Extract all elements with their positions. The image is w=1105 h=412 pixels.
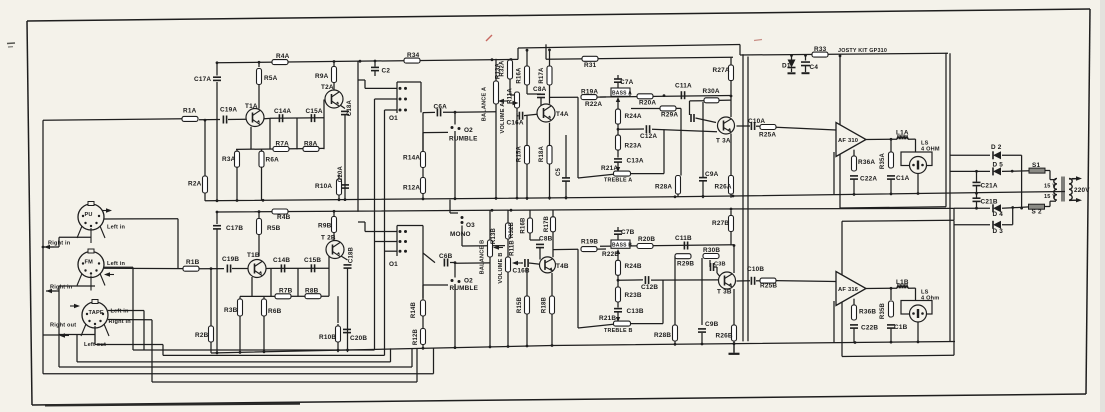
svg-text:C3B: C3B xyxy=(714,262,726,268)
svg-text:BALANCE B: BALANCE B xyxy=(480,240,486,275)
svg-text:C13A: C13A xyxy=(627,158,644,165)
svg-text:R30A: R30A xyxy=(703,88,720,95)
svg-text:R14A: R14A xyxy=(403,155,420,162)
svg-text:R25A: R25A xyxy=(759,132,776,139)
svg-text:C18B: C18B xyxy=(349,246,355,263)
svg-text:R22B: R22B xyxy=(602,251,619,258)
svg-text:BASS B: BASS B xyxy=(612,242,632,248)
svg-text:AF 310: AF 310 xyxy=(838,138,858,144)
svg-text:O3: O3 xyxy=(466,222,475,229)
svg-text:C13B: C13B xyxy=(627,308,644,315)
svg-text:T 3A: T 3A xyxy=(716,138,731,145)
svg-text:L1A: L1A xyxy=(896,130,909,137)
svg-text:D 5: D 5 xyxy=(993,162,1004,169)
svg-text:D 3: D 3 xyxy=(993,228,1004,235)
svg-text:C12A: C12A xyxy=(640,133,657,140)
svg-text:R23B: R23B xyxy=(625,292,642,299)
svg-text:R32A: R32A xyxy=(500,60,506,77)
svg-text:R3A: R3A xyxy=(222,156,236,163)
svg-text:TREBLE B: TREBLE B xyxy=(604,328,633,334)
svg-text:BASS A: BASS A xyxy=(612,90,632,96)
svg-text:C14B: C14B xyxy=(273,257,290,264)
svg-text:R15A: R15A xyxy=(517,145,523,162)
svg-text:Left in: Left in xyxy=(107,225,126,231)
svg-text:R30B: R30B xyxy=(703,247,720,254)
svg-text:220V: 220V xyxy=(1074,187,1090,194)
svg-text:R18A: R18A xyxy=(539,145,545,162)
svg-text:R24B: R24B xyxy=(625,263,642,270)
svg-text:R13B: R13B xyxy=(491,227,497,244)
svg-text:R29A: R29A xyxy=(661,112,678,119)
svg-text:C7A: C7A xyxy=(620,79,634,86)
svg-text:R8B: R8B xyxy=(305,288,319,295)
svg-text:R19A: R19A xyxy=(581,89,598,96)
svg-text:R12A: R12A xyxy=(403,185,420,192)
svg-text:D 2: D 2 xyxy=(991,144,1002,151)
svg-text:15 V: 15 V xyxy=(1044,194,1056,200)
svg-text:Left in: Left in xyxy=(111,309,130,315)
svg-text:L1B: L1B xyxy=(896,279,909,286)
svg-text:BALANCE A: BALANCE A xyxy=(482,87,488,122)
svg-text:C17A: C17A xyxy=(194,76,211,83)
svg-text:C8A: C8A xyxy=(533,86,547,93)
svg-text:4 OHM: 4 OHM xyxy=(921,147,940,153)
svg-text:R5A: R5A xyxy=(264,75,278,82)
svg-text:C22B: C22B xyxy=(861,325,878,332)
svg-text:PU: PU xyxy=(85,212,93,218)
svg-text:VOLUME B: VOLUME B xyxy=(498,252,504,283)
svg-text:MONO: MONO xyxy=(450,231,471,238)
svg-text:R18B: R18B xyxy=(542,296,548,313)
svg-text:C1A: C1A xyxy=(896,175,910,182)
svg-text:R14B: R14B xyxy=(411,301,417,318)
svg-text:RUMBLE: RUMBLE xyxy=(450,285,479,292)
svg-text:T4A: T4A xyxy=(556,111,569,118)
svg-text:R11A: R11A xyxy=(508,88,514,104)
svg-text:R24A: R24A xyxy=(625,113,642,120)
svg-text:R11B: R11B xyxy=(510,240,516,256)
svg-text:FM: FM xyxy=(85,260,94,266)
svg-text:R9A: R9A xyxy=(315,73,329,80)
svg-text:C11B: C11B xyxy=(675,235,692,242)
svg-text:R28B: R28B xyxy=(654,332,671,339)
svg-text:R32B: R32B xyxy=(509,221,515,238)
svg-text:R35B: R35B xyxy=(880,302,886,319)
svg-text:Right in: Right in xyxy=(48,241,71,247)
svg-text:R27B: R27B xyxy=(712,220,729,227)
svg-text:R29B: R29B xyxy=(677,261,694,268)
svg-text:4 Ohm: 4 Ohm xyxy=(921,296,939,302)
svg-text:C8B: C8B xyxy=(539,236,553,243)
svg-text:R20B: R20B xyxy=(638,236,655,243)
svg-text:C1B: C1B xyxy=(894,324,908,331)
svg-text:S1: S1 xyxy=(1032,162,1040,169)
svg-text:R1A: R1A xyxy=(183,108,197,115)
svg-text:C7B: C7B xyxy=(621,229,635,236)
svg-text:R6A: R6A xyxy=(266,157,280,164)
svg-text:C19A: C19A xyxy=(220,107,237,114)
svg-text:C6A: C6A xyxy=(434,104,448,111)
svg-text:T2A: T2A xyxy=(321,84,334,91)
svg-text:C15B: C15B xyxy=(304,257,321,264)
svg-text:D1: D1 xyxy=(782,63,791,70)
svg-text:R4B: R4B xyxy=(277,214,291,221)
svg-text:R21B: R21B xyxy=(599,315,616,322)
svg-text:R35A: R35A xyxy=(880,152,886,169)
svg-text:R4A: R4A xyxy=(276,53,290,60)
svg-text:R2A: R2A xyxy=(188,181,202,188)
svg-text:R7B: R7B xyxy=(279,288,293,295)
svg-text:R22A: R22A xyxy=(585,101,602,108)
svg-text:R21A: R21A xyxy=(601,165,618,172)
svg-text:R6B: R6B xyxy=(268,308,282,315)
svg-text:15 V: 15 V xyxy=(1044,184,1056,190)
svg-text:O2: O2 xyxy=(464,278,473,285)
svg-text:R25B: R25B xyxy=(760,283,777,290)
svg-text:JOSTY KIT GP310: JOSTY KIT GP310 xyxy=(838,48,887,54)
svg-text:C4: C4 xyxy=(810,64,819,71)
svg-text:R9B: R9B xyxy=(318,223,332,230)
svg-text:R15B: R15B xyxy=(517,296,523,313)
svg-text:C16B: C16B xyxy=(513,268,530,275)
svg-text:S 2: S 2 xyxy=(1032,209,1042,216)
svg-text:C20B: C20B xyxy=(350,335,367,342)
svg-text:C18A: C18A xyxy=(347,99,353,116)
svg-text:Left out: Left out xyxy=(84,342,106,348)
svg-text:O2: O2 xyxy=(464,127,473,134)
svg-text:C17B: C17B xyxy=(226,225,243,232)
svg-text:C9A: C9A xyxy=(705,171,719,178)
svg-text:T 3B: T 3B xyxy=(717,289,732,296)
svg-text:RUMBLE: RUMBLE xyxy=(449,136,478,143)
svg-text:Right in: Right in xyxy=(50,285,73,291)
svg-text:C21A: C21A xyxy=(981,182,998,189)
svg-text:TREBLE A: TREBLE A xyxy=(604,178,632,184)
svg-text:R10A: R10A xyxy=(315,183,332,190)
svg-text:R26A: R26A xyxy=(715,184,732,191)
svg-text:R1B: R1B xyxy=(186,259,200,266)
svg-text:C21B: C21B xyxy=(981,198,998,205)
svg-text:R10B: R10B xyxy=(319,334,336,341)
svg-text:C10A: C10A xyxy=(748,118,765,125)
svg-text:C16A: C16A xyxy=(507,120,524,127)
svg-text:C19B: C19B xyxy=(222,256,239,263)
svg-text:R34: R34 xyxy=(407,52,420,59)
svg-text:R17B: R17B xyxy=(544,215,550,232)
svg-text:R3B: R3B xyxy=(224,307,238,314)
svg-text:R2B: R2B xyxy=(195,332,209,339)
svg-text:R36A: R36A xyxy=(858,159,875,166)
svg-text:T1A: T1A xyxy=(245,103,258,110)
svg-text:C6B: C6B xyxy=(439,253,453,260)
svg-text:T4B: T4B xyxy=(556,263,569,270)
svg-text:C20A: C20A xyxy=(338,165,344,182)
svg-text:TAPE: TAPE xyxy=(89,310,104,316)
svg-text:R31: R31 xyxy=(584,62,597,69)
svg-text:C9B: C9B xyxy=(705,321,719,328)
svg-text:Right out: Right out xyxy=(50,323,76,329)
svg-text:R16A: R16A xyxy=(517,67,523,84)
svg-text:R23A: R23A xyxy=(625,143,642,150)
svg-text:O1: O1 xyxy=(389,115,398,122)
svg-text:R33: R33 xyxy=(814,46,827,53)
svg-text:R16B: R16B xyxy=(521,217,527,234)
svg-text:C11A: C11A xyxy=(675,83,692,90)
svg-text:C12B: C12B xyxy=(641,284,658,291)
svg-text:R12B: R12B xyxy=(413,328,419,345)
svg-text:R27A: R27A xyxy=(713,67,730,74)
svg-text:Left in: Left in xyxy=(107,261,126,267)
svg-text:Right in: Right in xyxy=(109,319,132,325)
svg-text:R36B: R36B xyxy=(859,309,876,316)
svg-text:VOLUME A: VOLUME A xyxy=(500,103,506,134)
svg-text:R26B: R26B xyxy=(716,333,733,340)
svg-text:C14A: C14A xyxy=(274,108,291,115)
svg-text:R28A: R28A xyxy=(655,184,672,191)
svg-text:R7A: R7A xyxy=(276,141,290,148)
svg-text:R17A: R17A xyxy=(539,67,545,84)
svg-text:C5: C5 xyxy=(556,168,562,177)
svg-text:C10B: C10B xyxy=(747,266,764,273)
svg-text:AF 316: AF 316 xyxy=(838,287,859,293)
svg-text:R19B: R19B xyxy=(581,239,598,246)
svg-text:T1B: T1B xyxy=(247,252,260,259)
svg-text:C22A: C22A xyxy=(860,176,877,183)
svg-text:D 4: D 4 xyxy=(993,211,1004,218)
svg-text:R8A: R8A xyxy=(304,141,318,148)
svg-text:T 2B: T 2B xyxy=(321,235,336,242)
svg-text:C2: C2 xyxy=(382,68,391,75)
svg-text:C15A: C15A xyxy=(306,108,323,115)
svg-text:O1: O1 xyxy=(389,261,398,268)
svg-text:R5B: R5B xyxy=(267,225,281,232)
svg-text:R20A: R20A xyxy=(639,100,656,107)
